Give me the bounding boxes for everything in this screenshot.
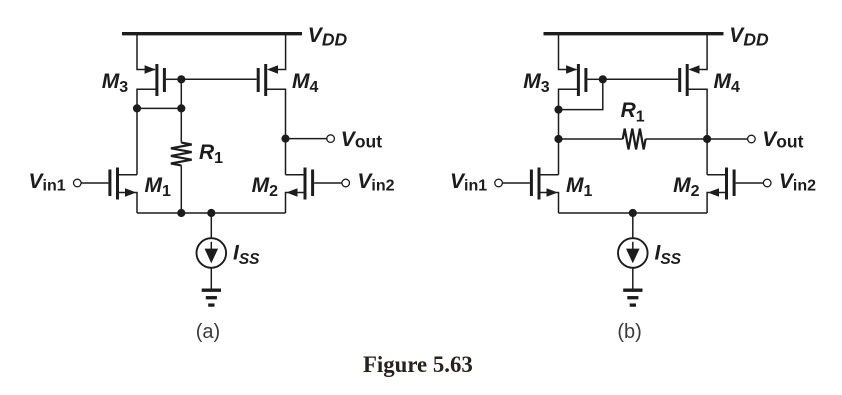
node R1 bottom at tail (a) bbox=[177, 209, 185, 217]
ground (a) bbox=[202, 290, 221, 305]
node Vout (b) bbox=[703, 135, 711, 143]
node R1 left (b) bbox=[554, 135, 562, 143]
svg-text:Vin2: Vin2 bbox=[779, 170, 816, 195]
wire M2 source lead (b) bbox=[707, 193, 725, 214]
wire M2 gate lead (a) bbox=[314, 182, 342, 184]
terminal Vout (b) bbox=[748, 135, 756, 143]
wire ISS to ground (b) bbox=[632, 268, 634, 289]
wire Vout lead (b) bbox=[707, 138, 748, 140]
terminal Vin1 (a) bbox=[74, 179, 82, 187]
node diode connection at drain (b) bbox=[554, 106, 562, 114]
transistor M2 (a) NMOS bbox=[286, 168, 312, 200]
wire M2 drain lead (a) bbox=[286, 174, 304, 176]
wire tail node (b) bbox=[559, 212, 708, 214]
svg-text:M4: M4 bbox=[714, 70, 741, 96]
svg-text:M3: M3 bbox=[102, 70, 129, 96]
svg-text:ISS: ISS bbox=[655, 242, 682, 268]
svg-text:R1: R1 bbox=[199, 141, 223, 167]
svg-text:Vout: Vout bbox=[341, 128, 382, 152]
svg-text:Vin1: Vin1 bbox=[450, 170, 487, 195]
svg-text:Figure 5.63: Figure 5.63 bbox=[363, 352, 473, 377]
wire tail node (a) bbox=[137, 212, 286, 214]
current source ISS (b) bbox=[618, 238, 648, 268]
svg-text:M1: M1 bbox=[566, 174, 593, 200]
terminal Vout (a) bbox=[327, 135, 335, 143]
wire M3 drain down to M1 drain (b) bbox=[559, 89, 578, 175]
resistor R1 (a) bbox=[171, 143, 192, 166]
VDD rail (b) bbox=[544, 32, 724, 35]
wire ISS to ground (a) bbox=[210, 268, 212, 289]
ground (b) bbox=[623, 290, 642, 305]
svg-text:M2: M2 bbox=[252, 174, 279, 200]
node tail to ISS (b) bbox=[629, 209, 637, 217]
svg-text:Vin1: Vin1 bbox=[29, 170, 66, 195]
terminal Vin2 (b) bbox=[763, 179, 771, 187]
terminal Vin1 (b) bbox=[495, 179, 503, 187]
wire gate bus M3-M4 (a) bbox=[181, 78, 256, 80]
wire M1 source lead (b) bbox=[540, 193, 558, 214]
wire Vout lead (a) bbox=[286, 138, 328, 140]
transistor M3 (b) PMOS bbox=[566, 64, 603, 96]
transistor M1 (a) NMOS bbox=[110, 168, 136, 200]
wire gate bus M3-M4 (b) bbox=[603, 78, 678, 80]
svg-text:M1: M1 bbox=[145, 174, 172, 200]
svg-text:Vout: Vout bbox=[762, 128, 803, 152]
svg-text:VDD: VDD bbox=[729, 24, 769, 50]
wire M4 drain to M2 drain (b) bbox=[688, 89, 707, 175]
svg-text:ISS: ISS bbox=[233, 242, 260, 268]
wire M1 source lead (a) bbox=[119, 193, 137, 214]
terminal Vin2 (a) bbox=[342, 179, 350, 187]
wire R1 right lead (b) bbox=[646, 138, 708, 140]
transistor M2 (b) NMOS bbox=[708, 168, 734, 200]
wire tail to ISS (a) bbox=[210, 213, 212, 239]
svg-text:VDD: VDD bbox=[308, 24, 348, 50]
transistor M4 (b) PMOS bbox=[680, 64, 700, 96]
wire M2 source lead (a) bbox=[286, 193, 304, 214]
VDD rail (a) bbox=[122, 32, 302, 35]
transistor M3 (a) PMOS bbox=[145, 64, 182, 96]
svg-text:M2: M2 bbox=[673, 174, 700, 200]
svg-text:(b): (b) bbox=[617, 321, 641, 343]
svg-text:Vin2: Vin2 bbox=[357, 170, 394, 195]
wire R1 left lead (b) bbox=[559, 138, 623, 140]
wire M3 source to rail (a) bbox=[137, 34, 155, 70]
wire R1 top lead (a) bbox=[180, 108, 182, 142]
wire Vin1 to M1 gate (b) bbox=[502, 182, 530, 184]
svg-text:(a): (a) bbox=[196, 321, 220, 343]
transistor M4 (a) PMOS bbox=[258, 64, 278, 96]
wire M3 source to rail (b) bbox=[559, 34, 577, 70]
wire M3 drain down to M1 drain (a) bbox=[137, 89, 156, 175]
wire tail to ISS (b) bbox=[632, 213, 634, 239]
node M3 drain (a) bbox=[133, 104, 141, 112]
wire M4 drain to M2 drain (a) bbox=[267, 89, 286, 175]
svg-text:R1: R1 bbox=[621, 99, 645, 125]
wire Vin1 to M1 gate (a) bbox=[81, 182, 109, 184]
node tail to ISS (a) bbox=[207, 209, 215, 217]
wire M1 drain lead (a) bbox=[119, 174, 137, 176]
wire diode connection (a) bbox=[137, 79, 181, 108]
node gate of M3/M4 (b) bbox=[599, 75, 607, 83]
transistor M1 (b) NMOS bbox=[531, 168, 557, 200]
current source ISS (a) bbox=[197, 238, 227, 268]
wire diode connection (b) bbox=[559, 79, 603, 109]
node R1 top (a) bbox=[177, 104, 185, 112]
resistor R1 (b) bbox=[623, 129, 646, 150]
wire M2 drain lead (b) bbox=[707, 174, 725, 176]
node gate of M3/M4 (a) bbox=[177, 75, 185, 83]
node Vout (a) bbox=[281, 135, 289, 143]
svg-text:M3: M3 bbox=[523, 70, 550, 96]
wire R1 bottom lead (a) bbox=[180, 165, 182, 213]
wire M4 source to rail (b) bbox=[700, 34, 708, 70]
wire M2 gate lead (b) bbox=[736, 182, 764, 184]
wire M4 source to rail (a) bbox=[278, 34, 286, 70]
svg-text:M4: M4 bbox=[292, 70, 319, 96]
wire M1 drain lead (b) bbox=[540, 174, 558, 176]
